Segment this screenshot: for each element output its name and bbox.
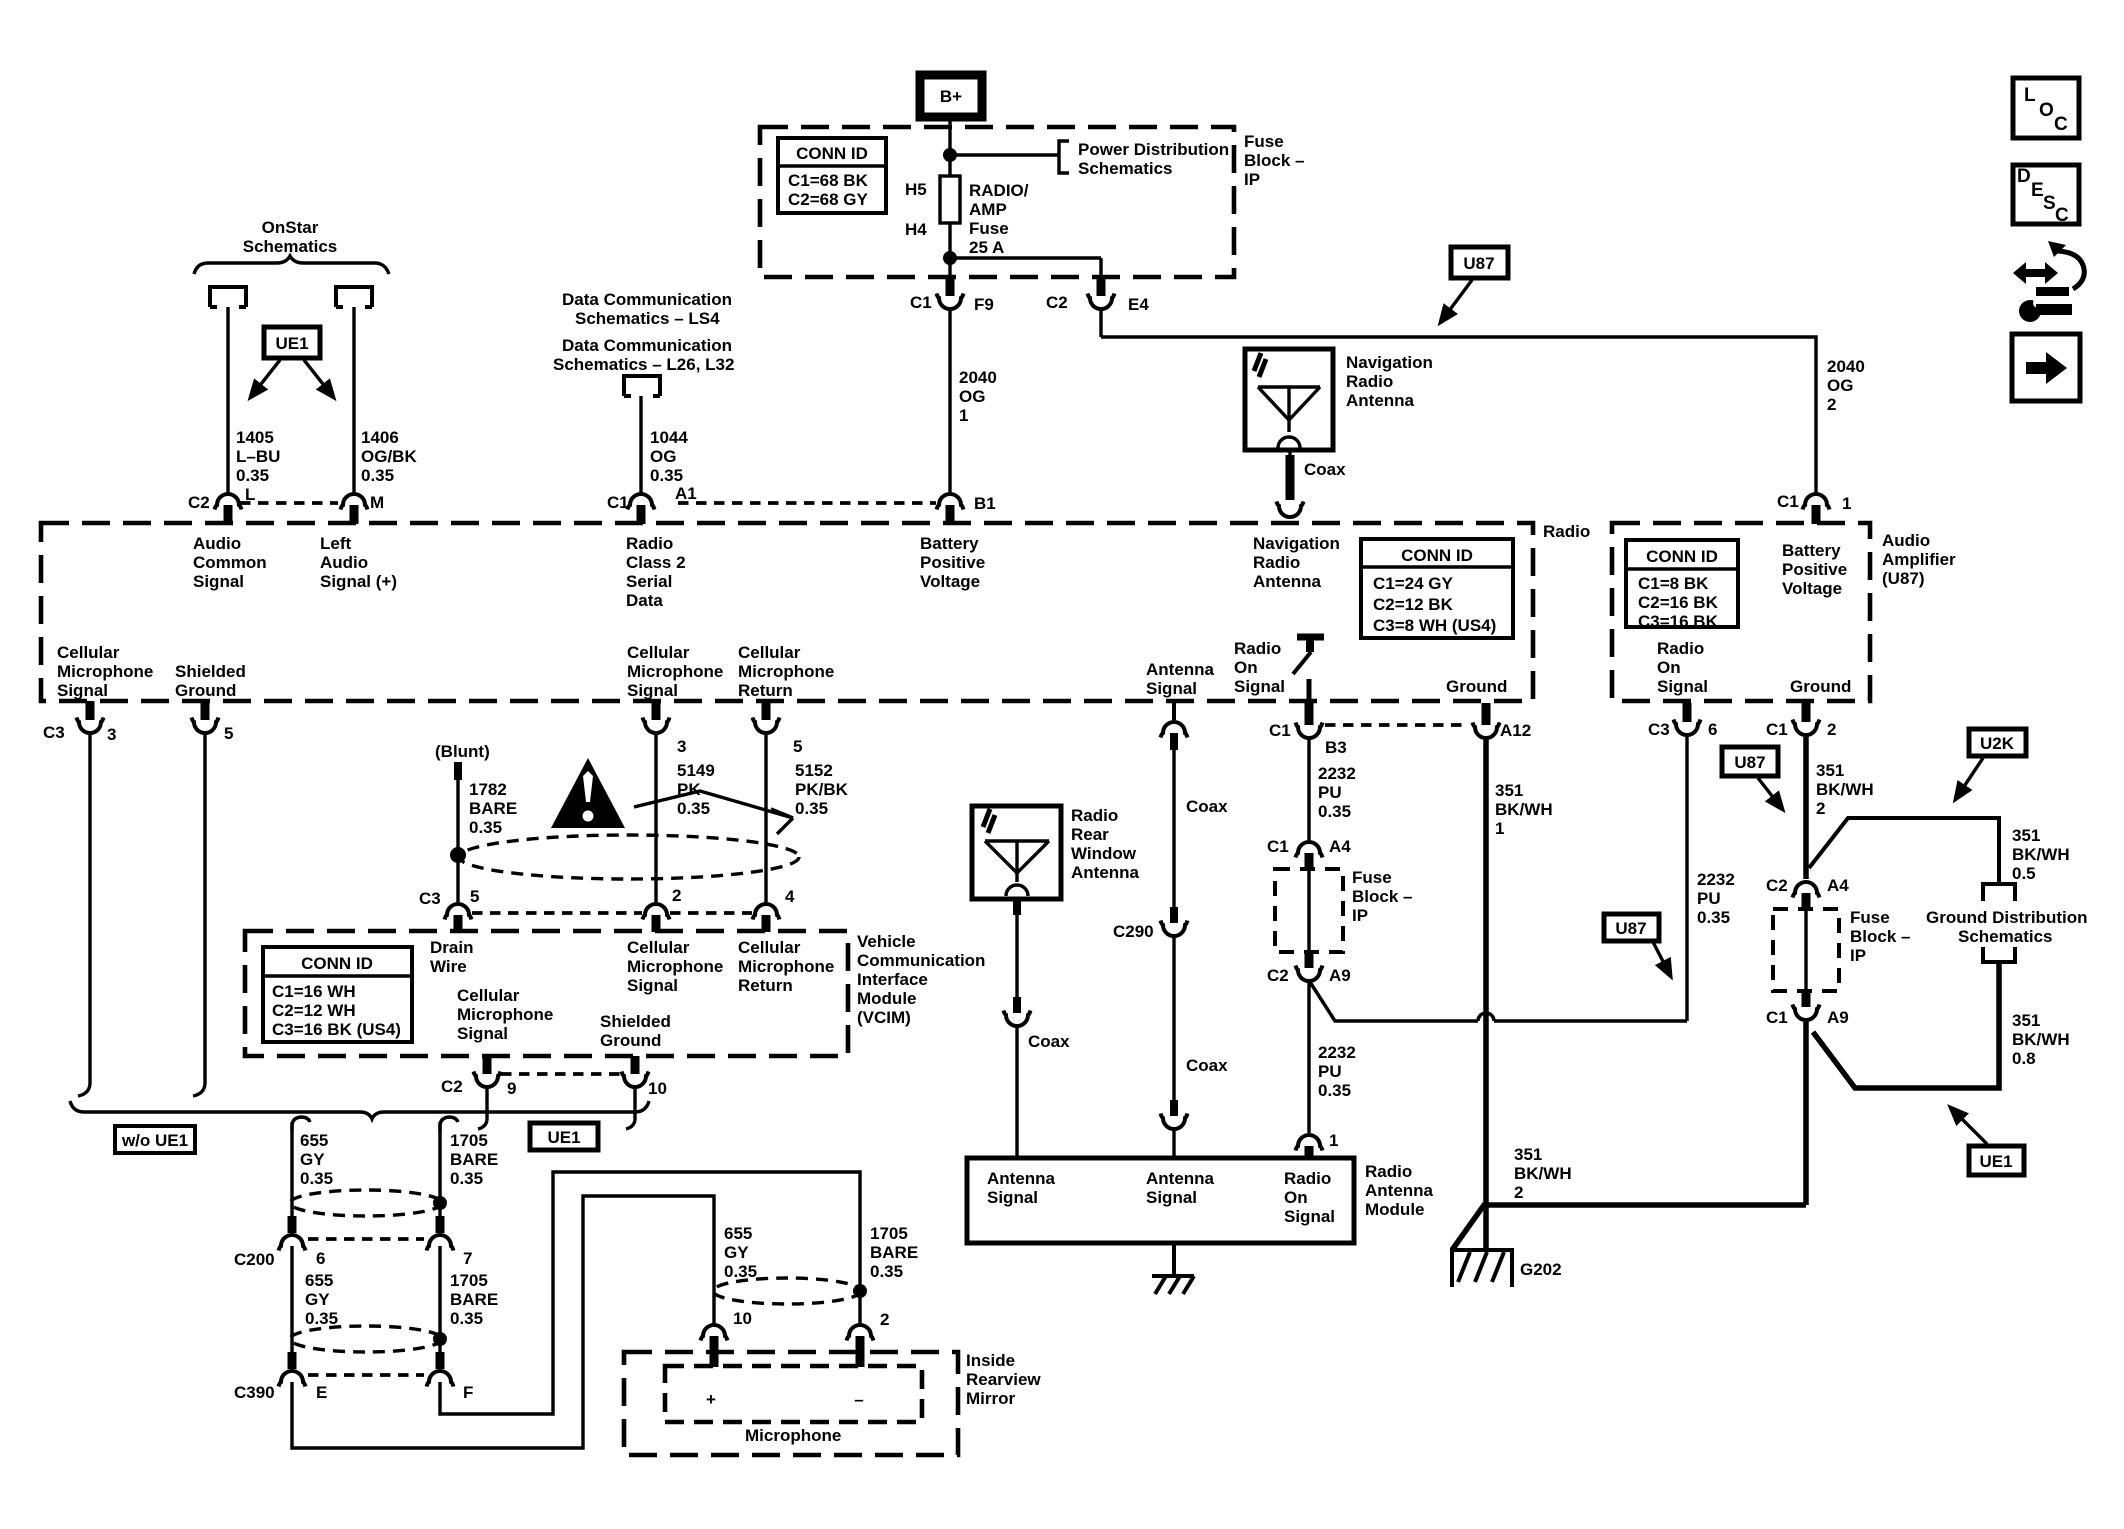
svg-text:3: 3 <box>677 737 686 756</box>
svg-text:GY: GY <box>300 1150 325 1169</box>
svg-text:CONN ID: CONN ID <box>1401 546 1473 565</box>
svg-text:Radio: Radio <box>1346 372 1393 391</box>
svg-text:(Blunt): (Blunt) <box>435 742 490 761</box>
svg-text:Signal: Signal <box>57 681 108 700</box>
svg-text:C1: C1 <box>1267 837 1289 856</box>
svg-text:Cellular: Cellular <box>57 643 120 662</box>
svg-text:0.35: 0.35 <box>305 1309 338 1328</box>
svg-text:Cellular: Cellular <box>457 986 520 1005</box>
svg-text:C1: C1 <box>1766 1008 1788 1027</box>
svg-text:C1=16 WH: C1=16 WH <box>272 982 356 1001</box>
svg-text:E4: E4 <box>1128 295 1149 314</box>
svg-text:Microphone: Microphone <box>457 1005 553 1024</box>
svg-text:Navigation: Navigation <box>1346 353 1433 372</box>
svg-text:Window: Window <box>1071 844 1137 863</box>
svg-text:BARE: BARE <box>450 1150 498 1169</box>
svg-text:0.8: 0.8 <box>2012 1049 2036 1068</box>
svg-text:5: 5 <box>793 737 802 756</box>
svg-text:0.35: 0.35 <box>361 466 394 485</box>
svg-text:C2=68 GY: C2=68 GY <box>788 190 869 209</box>
svg-text:Coax: Coax <box>1186 1056 1228 1075</box>
svg-text:Schematics – LS4: Schematics – LS4 <box>575 309 720 328</box>
svg-text:C1=68 BK: C1=68 BK <box>788 171 869 190</box>
svg-text:C2: C2 <box>441 1077 463 1096</box>
svg-text:Return: Return <box>738 681 793 700</box>
svg-text:CONN ID: CONN ID <box>1646 547 1718 566</box>
svg-text:1405: 1405 <box>236 428 274 447</box>
svg-text:IP: IP <box>1244 170 1260 189</box>
svg-text:Antenna: Antenna <box>1146 1169 1215 1188</box>
svg-text:A9: A9 <box>1329 966 1351 985</box>
svg-text:655: 655 <box>305 1271 333 1290</box>
svg-text:C200: C200 <box>234 1250 275 1269</box>
svg-text:C2: C2 <box>1046 293 1068 312</box>
svg-text:PU: PU <box>1318 783 1342 802</box>
svg-text:(U87): (U87) <box>1882 569 1925 588</box>
svg-text:Signal: Signal <box>1146 1188 1197 1207</box>
svg-text:0.35: 0.35 <box>650 466 683 485</box>
svg-text:1: 1 <box>959 406 968 425</box>
svg-text:BARE: BARE <box>870 1243 918 1262</box>
svg-text:Data: Data <box>626 591 663 610</box>
svg-text:Antenna: Antenna <box>1253 572 1322 591</box>
svg-text:C2=12 BK: C2=12 BK <box>1373 595 1454 614</box>
svg-text:Wire: Wire <box>430 957 467 976</box>
svg-text:2: 2 <box>1514 1183 1523 1202</box>
svg-text:C3: C3 <box>419 889 441 908</box>
svg-text:CONN ID: CONN ID <box>796 144 868 163</box>
svg-text:OG/BK: OG/BK <box>361 447 417 466</box>
svg-text:1782: 1782 <box>469 780 507 799</box>
svg-text:w/o UE1: w/o UE1 <box>121 1131 188 1150</box>
svg-text:7: 7 <box>463 1249 472 1268</box>
svg-text:C390: C390 <box>234 1383 275 1402</box>
svg-text:GY: GY <box>305 1290 330 1309</box>
svg-text:6: 6 <box>316 1249 325 1268</box>
svg-text:C3=8 WH (US4): C3=8 WH (US4) <box>1373 616 1496 635</box>
svg-text:S: S <box>2043 193 2056 214</box>
svg-text:0.35: 0.35 <box>795 799 828 818</box>
svg-text:Module: Module <box>857 989 917 1008</box>
svg-text:6: 6 <box>1708 720 1717 739</box>
svg-text:5: 5 <box>470 887 479 906</box>
svg-text:2040: 2040 <box>959 368 997 387</box>
svg-text:Radio: Radio <box>1365 1162 1412 1181</box>
svg-text:0.35: 0.35 <box>677 799 710 818</box>
svg-text:Radio: Radio <box>1543 522 1590 541</box>
svg-text:1: 1 <box>1842 494 1851 513</box>
svg-text:Left: Left <box>320 534 352 553</box>
svg-text:Communication: Communication <box>857 951 985 970</box>
svg-text:Rearview: Rearview <box>966 1370 1041 1389</box>
svg-text:9: 9 <box>507 1079 516 1098</box>
svg-text:Ground: Ground <box>175 681 236 700</box>
svg-text:Rear: Rear <box>1071 825 1109 844</box>
svg-text:Cellular: Cellular <box>738 938 801 957</box>
svg-text:1705: 1705 <box>870 1224 908 1243</box>
svg-text:1406: 1406 <box>361 428 399 447</box>
svg-text:A12: A12 <box>1500 721 1531 740</box>
svg-text:B1: B1 <box>974 494 996 513</box>
svg-text:A1: A1 <box>675 484 697 503</box>
svg-text:Shielded: Shielded <box>175 662 246 681</box>
svg-text:Inside: Inside <box>966 1351 1015 1370</box>
svg-text:Antenna: Antenna <box>1365 1181 1434 1200</box>
svg-text:BK/WH: BK/WH <box>2012 845 2070 864</box>
svg-text:5: 5 <box>224 724 233 743</box>
svg-text:A4: A4 <box>1329 837 1351 856</box>
svg-text:2: 2 <box>1827 720 1836 739</box>
svg-text:0.35: 0.35 <box>724 1262 757 1281</box>
svg-text:Signal: Signal <box>457 1024 508 1043</box>
svg-text:0.35: 0.35 <box>450 1309 483 1328</box>
svg-text:2: 2 <box>1827 395 1836 414</box>
svg-text:Signal: Signal <box>1146 679 1197 698</box>
svg-text:655: 655 <box>724 1224 752 1243</box>
svg-text:IP: IP <box>1352 906 1368 925</box>
svg-text:C3=16 BK (US4): C3=16 BK (US4) <box>272 1020 401 1039</box>
svg-text:Cellular: Cellular <box>627 643 690 662</box>
svg-text:UE1: UE1 <box>547 1128 580 1147</box>
svg-text:25 A: 25 A <box>969 238 1004 257</box>
svg-text:AMP: AMP <box>969 200 1007 219</box>
svg-text:Ground: Ground <box>600 1031 661 1050</box>
svg-text:H4: H4 <box>905 220 927 239</box>
svg-text:Microphone: Microphone <box>745 1426 841 1445</box>
svg-text:Drain: Drain <box>430 938 473 957</box>
svg-text:Signal: Signal <box>987 1188 1038 1207</box>
svg-text:U2K: U2K <box>1980 734 2015 753</box>
svg-text:CONN ID: CONN ID <box>301 954 373 973</box>
svg-text:O: O <box>2039 100 2054 121</box>
svg-text:C1=8 BK: C1=8 BK <box>1638 574 1709 593</box>
svg-text:A9: A9 <box>1827 1008 1849 1027</box>
svg-text:Fuse: Fuse <box>1850 908 1890 927</box>
svg-text:C3: C3 <box>1648 720 1670 739</box>
svg-text:F9: F9 <box>974 295 994 314</box>
svg-text:+: + <box>706 1390 716 1409</box>
svg-text:Positive: Positive <box>920 553 985 572</box>
svg-text:351: 351 <box>2012 1011 2040 1030</box>
svg-text:H5: H5 <box>905 180 927 199</box>
svg-text:Signal: Signal <box>627 976 678 995</box>
svg-text:UE1: UE1 <box>1979 1152 2012 1171</box>
svg-text:Serial: Serial <box>626 572 672 591</box>
svg-text:L–BU: L–BU <box>236 447 280 466</box>
svg-text:C2=12 WH: C2=12 WH <box>272 1001 356 1020</box>
svg-text:Common: Common <box>193 553 267 572</box>
svg-text:B+: B+ <box>940 87 962 106</box>
svg-text:PU: PU <box>1697 889 1721 908</box>
svg-text:Schematics – L26, L32: Schematics – L26, L32 <box>553 355 734 374</box>
svg-text:On: On <box>1234 658 1258 677</box>
svg-text:Fuse: Fuse <box>1244 132 1284 151</box>
svg-text:Data Communication: Data Communication <box>562 336 732 355</box>
svg-text:PK/BK: PK/BK <box>795 780 849 799</box>
svg-text:Radio: Radio <box>1071 806 1118 825</box>
svg-text:2: 2 <box>880 1310 889 1329</box>
svg-text:351: 351 <box>2012 826 2040 845</box>
svg-text:Fuse: Fuse <box>969 219 1009 238</box>
svg-text:Class 2: Class 2 <box>626 553 686 572</box>
svg-text:Radio: Radio <box>626 534 673 553</box>
svg-text:L: L <box>2024 85 2036 106</box>
svg-text:0.5: 0.5 <box>2012 864 2036 883</box>
svg-text:Block –: Block – <box>1352 887 1412 906</box>
svg-text:0.35: 0.35 <box>236 466 269 485</box>
svg-text:Antenna: Antenna <box>1346 391 1415 410</box>
svg-text:10: 10 <box>648 1079 667 1098</box>
svg-text:Navigation: Navigation <box>1253 534 1340 553</box>
svg-text:Signal: Signal <box>627 681 678 700</box>
svg-text:Battery: Battery <box>1782 541 1841 560</box>
svg-text:Audio: Audio <box>320 553 368 572</box>
svg-text:4: 4 <box>785 887 795 906</box>
svg-text:Positive: Positive <box>1782 560 1847 579</box>
svg-text:Antenna: Antenna <box>987 1169 1056 1188</box>
svg-text:Ground: Ground <box>1790 677 1851 696</box>
svg-text:Ground Distribution: Ground Distribution <box>1926 908 2087 927</box>
svg-text:Battery: Battery <box>920 534 979 553</box>
svg-text:C290: C290 <box>1113 922 1154 941</box>
svg-text:BARE: BARE <box>450 1290 498 1309</box>
svg-text:0.35: 0.35 <box>1318 1081 1351 1100</box>
svg-text:C2: C2 <box>188 493 210 512</box>
svg-text:2040: 2040 <box>1827 357 1865 376</box>
svg-text:Signal: Signal <box>193 572 244 591</box>
svg-text:OG: OG <box>650 447 676 466</box>
svg-text:Microphone: Microphone <box>627 662 723 681</box>
svg-text:5152: 5152 <box>795 761 833 780</box>
svg-text:UE1: UE1 <box>275 334 308 353</box>
svg-text:BK/WH: BK/WH <box>1816 780 1874 799</box>
svg-text:Microphone: Microphone <box>738 957 834 976</box>
svg-text:Coax: Coax <box>1186 797 1228 816</box>
svg-text:On: On <box>1284 1188 1308 1207</box>
svg-text:0.35: 0.35 <box>450 1169 483 1188</box>
svg-text:1: 1 <box>1329 1131 1338 1150</box>
svg-text:U87: U87 <box>1734 753 1765 772</box>
svg-text:2232: 2232 <box>1697 870 1735 889</box>
svg-text:5149: 5149 <box>677 761 715 780</box>
svg-text:PU: PU <box>1318 1062 1342 1081</box>
svg-text:A4: A4 <box>1827 876 1849 895</box>
svg-text:2232: 2232 <box>1318 764 1356 783</box>
svg-text:655: 655 <box>300 1131 328 1150</box>
svg-text:351: 351 <box>1514 1145 1542 1164</box>
svg-text:Radio: Radio <box>1234 639 1281 658</box>
svg-text:Ground: Ground <box>1446 677 1507 696</box>
svg-text:0.35: 0.35 <box>1318 802 1351 821</box>
svg-text:1705: 1705 <box>450 1271 488 1290</box>
svg-text:Voltage: Voltage <box>920 572 980 591</box>
svg-text:(VCIM): (VCIM) <box>857 1008 911 1027</box>
svg-text:Coax: Coax <box>1304 460 1346 479</box>
svg-text:C1: C1 <box>1269 721 1291 740</box>
svg-text:C1=24 GY: C1=24 GY <box>1373 574 1454 593</box>
svg-text:Schematics: Schematics <box>1078 159 1173 178</box>
svg-text:D: D <box>2017 166 2031 187</box>
svg-text:BARE: BARE <box>469 799 517 818</box>
svg-text:OG: OG <box>959 387 985 406</box>
svg-text:Signal: Signal <box>1284 1207 1335 1226</box>
svg-text:E: E <box>2031 180 2044 201</box>
svg-text:Module: Module <box>1365 1200 1425 1219</box>
svg-text:Radio: Radio <box>1253 553 1300 572</box>
svg-text:G202: G202 <box>1520 1260 1562 1279</box>
svg-text:351: 351 <box>1816 761 1844 780</box>
svg-text:1044: 1044 <box>650 428 688 447</box>
svg-text:2: 2 <box>1816 799 1825 818</box>
svg-text:Interface: Interface <box>857 970 928 989</box>
svg-text:M: M <box>370 493 384 512</box>
svg-text:C1: C1 <box>910 293 932 312</box>
svg-text:Vehicle: Vehicle <box>857 932 916 951</box>
svg-text:C2: C2 <box>1766 876 1788 895</box>
svg-text:OnStar: OnStar <box>262 218 319 237</box>
svg-text:OG: OG <box>1827 376 1853 395</box>
svg-text:0.35: 0.35 <box>870 1262 903 1281</box>
svg-text:BK/WH: BK/WH <box>2012 1030 2070 1049</box>
svg-text:C3: C3 <box>43 723 65 742</box>
svg-text:1705: 1705 <box>450 1131 488 1150</box>
svg-text:0.35: 0.35 <box>300 1169 333 1188</box>
svg-text:Mirror: Mirror <box>966 1389 1016 1408</box>
svg-text:Microphone: Microphone <box>627 957 723 976</box>
svg-text:C2=16 BK: C2=16 BK <box>1638 593 1719 612</box>
svg-text:Radio: Radio <box>1657 639 1704 658</box>
svg-text:351: 351 <box>1495 781 1523 800</box>
svg-text:F: F <box>463 1383 473 1402</box>
svg-text:Data Communication: Data Communication <box>562 290 732 309</box>
svg-text:Cellular: Cellular <box>627 938 690 957</box>
svg-text:B3: B3 <box>1325 738 1347 757</box>
svg-text:Radio: Radio <box>1284 1169 1331 1188</box>
svg-text:IP: IP <box>1850 946 1866 965</box>
svg-text:E: E <box>316 1383 327 1402</box>
svg-text:C1: C1 <box>607 493 629 512</box>
svg-text:Cellular: Cellular <box>738 643 801 662</box>
svg-text:0.35: 0.35 <box>469 818 502 837</box>
svg-text:–: – <box>854 1390 863 1409</box>
svg-text:Coax: Coax <box>1028 1032 1070 1051</box>
svg-text:1: 1 <box>1495 819 1504 838</box>
svg-text:Schematics: Schematics <box>1958 927 2053 946</box>
svg-text:Return: Return <box>738 976 793 995</box>
svg-text:Antenna: Antenna <box>1146 660 1215 679</box>
svg-text:C: C <box>2054 114 2068 135</box>
svg-text:Shielded: Shielded <box>600 1012 671 1031</box>
svg-text:Voltage: Voltage <box>1782 579 1842 598</box>
svg-text:Signal (+): Signal (+) <box>320 572 397 591</box>
svg-text:C3=16 BK: C3=16 BK <box>1638 612 1719 631</box>
svg-text:Microphone: Microphone <box>57 662 153 681</box>
svg-text:U87: U87 <box>1615 919 1646 938</box>
svg-text:U87: U87 <box>1463 254 1494 273</box>
svg-text:Signal: Signal <box>1657 677 1708 696</box>
svg-text:C: C <box>2055 205 2069 226</box>
svg-text:C1: C1 <box>1766 720 1788 739</box>
svg-text:Audio: Audio <box>193 534 241 553</box>
svg-text:10: 10 <box>733 1309 752 1328</box>
svg-text:C1: C1 <box>1777 492 1799 511</box>
svg-text:Amplifier: Amplifier <box>1882 550 1956 569</box>
svg-text:Fuse: Fuse <box>1352 868 1392 887</box>
svg-text:Antenna: Antenna <box>1071 863 1140 882</box>
svg-text:Block –: Block – <box>1244 151 1304 170</box>
svg-text:GY: GY <box>724 1243 749 1262</box>
svg-text:BK/WH: BK/WH <box>1495 800 1553 819</box>
svg-text:2: 2 <box>672 886 681 905</box>
svg-text:Power Distribution: Power Distribution <box>1078 140 1229 159</box>
svg-text:Microphone: Microphone <box>738 662 834 681</box>
svg-text:C2: C2 <box>1267 966 1289 985</box>
svg-text:Signal: Signal <box>1234 677 1285 696</box>
svg-text:Audio: Audio <box>1882 531 1930 550</box>
svg-text:3: 3 <box>107 725 116 744</box>
svg-text:0.35: 0.35 <box>1697 908 1730 927</box>
svg-text:RADIO/: RADIO/ <box>969 181 1029 200</box>
svg-text:2232: 2232 <box>1318 1043 1356 1062</box>
svg-text:On: On <box>1657 658 1681 677</box>
svg-text:PK: PK <box>677 780 701 799</box>
svg-text:Block –: Block – <box>1850 927 1910 946</box>
svg-text:BK/WH: BK/WH <box>1514 1164 1572 1183</box>
